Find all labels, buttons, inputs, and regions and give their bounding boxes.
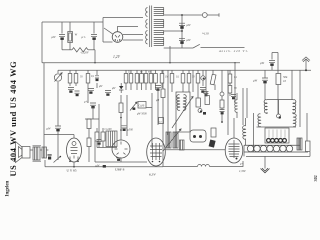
svg-text:U Y 85: U Y 85 xyxy=(67,169,77,173)
svg-text:μW: μW xyxy=(52,35,57,39)
svg-text:10: 10 xyxy=(283,79,287,83)
svg-text:μW: μW xyxy=(187,23,192,27)
svg-text:US 404 WV und US 404 WG: US 404 WV und US 404 WG xyxy=(9,61,18,177)
svg-text:0,1: 0,1 xyxy=(91,75,95,78)
svg-text:∿220V: ∿220V xyxy=(80,51,90,55)
svg-text:302: 302 xyxy=(313,175,318,181)
svg-text:μW: μW xyxy=(112,87,116,90)
svg-text:μ∿: μ∿ xyxy=(240,163,244,166)
svg-text:W: W xyxy=(75,33,78,37)
svg-text:Ansch. 220 V∿: Ansch. 220 V∿ xyxy=(218,49,248,53)
svg-text:na: na xyxy=(140,71,143,74)
svg-text:1,5W: 1,5W xyxy=(239,169,246,174)
svg-text:1M: 1M xyxy=(165,76,169,79)
svg-text:μ500: μ500 xyxy=(128,129,134,132)
svg-text:μW: μW xyxy=(99,85,103,88)
svg-text:μW: μW xyxy=(187,38,192,42)
svg-text:50: 50 xyxy=(192,76,195,79)
svg-text:≈110: ≈110 xyxy=(202,32,209,36)
svg-text:0,1: 0,1 xyxy=(176,76,180,79)
svg-text:Cu100: Cu100 xyxy=(105,128,113,131)
svg-text:50: 50 xyxy=(234,87,237,90)
svg-text:Ingelen: Ingelen xyxy=(6,180,11,196)
svg-text:μW: μW xyxy=(96,164,100,168)
svg-text:μW 5000: μW 5000 xyxy=(137,113,147,116)
svg-text:μ∿: μ∿ xyxy=(82,35,87,39)
svg-text:Ca30: Ca30 xyxy=(139,105,145,108)
svg-text:50: 50 xyxy=(80,76,83,79)
svg-text:C3: C3 xyxy=(159,120,163,123)
svg-text:μW: μW xyxy=(260,61,265,65)
svg-text:UBF 8: UBF 8 xyxy=(115,168,125,172)
svg-text:6,3V: 6,3V xyxy=(149,173,156,178)
svg-text:0,1: 0,1 xyxy=(234,76,238,79)
svg-text:1,2V: 1,2V xyxy=(113,55,121,60)
svg-text:μW: μW xyxy=(47,127,52,131)
svg-text:μW: μW xyxy=(253,79,258,83)
